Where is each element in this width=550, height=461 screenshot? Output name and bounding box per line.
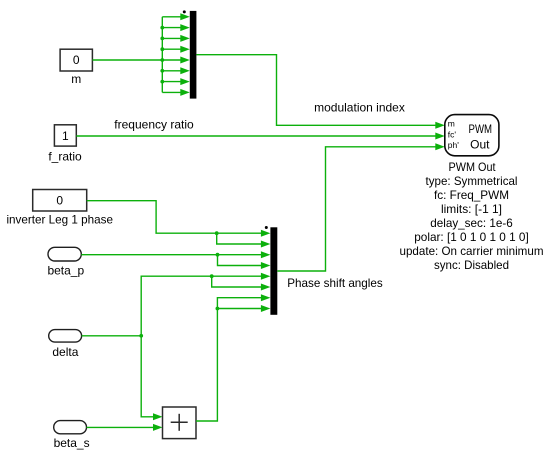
wire Mux1 input stubs [162, 17, 182, 93]
svg-text:ph': ph' [448, 140, 459, 150]
constant block f_ratio [48, 125, 82, 164]
annotation frequency ratio [114, 117, 194, 131]
wire beta_s to Sum input2 [87, 424, 163, 431]
constant block inverter Leg 1 phase [6, 190, 113, 227]
wire Mux1 output to PWM input m [196, 55, 444, 129]
junction dot sum branch [216, 307, 220, 311]
svg-text:PWM: PWM [469, 122, 493, 136]
Mux2 input arrowheads [261, 230, 271, 312]
svg-text:m: m [448, 119, 455, 129]
svg-text:Phase shift angles: Phase shift angles [287, 276, 383, 290]
annotation PWM parameters [400, 174, 544, 272]
inport beta_p [47, 247, 84, 277]
wire beta_p branch to Mux2 input4 [218, 255, 263, 266]
svg-text:Out: Out [470, 137, 490, 151]
wire delta down to Sum input1 [141, 336, 162, 421]
junction dot delta branch [210, 274, 214, 278]
wire delta branch to Mux2 input6 [212, 276, 262, 287]
wire f_ratio to PWM input fc [76, 133, 445, 140]
inport beta_s [54, 421, 90, 451]
wire inverter phase to Mux2 input1 [87, 201, 262, 234]
PWM Out block [445, 115, 499, 156]
wire inverter branch to Mux2 input2 [217, 233, 262, 244]
svg-text:0: 0 [73, 53, 80, 67]
svg-text:beta_s: beta_s [54, 436, 90, 450]
wire Mux2 output to PWM input ph [277, 143, 445, 271]
annotation Phase shift angles [287, 276, 383, 290]
constant block m [60, 49, 92, 86]
svg-text:inverter Leg 1 phase: inverter Leg 1 phase [6, 213, 113, 227]
sum block [163, 407, 197, 439]
svg-text:delta: delta [52, 345, 78, 359]
wire delta to Mux2 input5 [82, 276, 262, 336]
svg-text:frequency ratio: frequency ratio [114, 117, 194, 131]
svg-text:update: On carrier minimum: update: On carrier minimum [400, 244, 544, 258]
mux Mux1 [183, 10, 197, 98]
svg-text:polar: [1 0 1 0 1 0 1 0]: polar: [1 0 1 0 1 0 1 0] [414, 230, 529, 244]
wire sum branch to Mux2 input8 [217, 308, 262, 310]
wire beta_p to Mux2 input3 [81, 254, 262, 256]
wire Mux1 branch trunk [161, 17, 163, 93]
svg-text:modulation index: modulation index [314, 101, 405, 115]
svg-text:limits: [-1 1]: limits: [-1 1] [441, 202, 502, 216]
svg-text:0: 0 [56, 194, 63, 208]
junction dots on Mux1 trunk [160, 26, 164, 84]
wire m to Mux1 trunk [92, 59, 162, 61]
junction dot beta_p branch [216, 253, 220, 257]
annotation modulation index [314, 101, 405, 115]
svg-text:fc': fc' [448, 129, 457, 139]
svg-text:delay_sec: 1e-6: delay_sec: 1e-6 [430, 216, 513, 230]
svg-text:1: 1 [62, 129, 69, 143]
junction dot inverter branch [215, 231, 219, 235]
inport delta [49, 330, 82, 359]
label PWM Out [449, 160, 497, 174]
svg-text:f_ratio: f_ratio [48, 149, 82, 163]
svg-text:sync: Disabled: sync: Disabled [434, 258, 509, 272]
Mux1 input arrowheads [180, 13, 190, 96]
junction dot delta split [139, 334, 143, 338]
svg-text:beta_p: beta_p [47, 263, 84, 277]
svg-text:fc: Freq_PWM: fc: Freq_PWM [434, 188, 509, 202]
svg-text:m: m [71, 72, 81, 86]
wire Sum output to Mux2 input7 [196, 298, 262, 421]
svg-text:type: Symmetrical: type: Symmetrical [426, 174, 518, 188]
mux Mux2 [265, 226, 278, 315]
svg-text:PWM Out: PWM Out [449, 160, 497, 174]
